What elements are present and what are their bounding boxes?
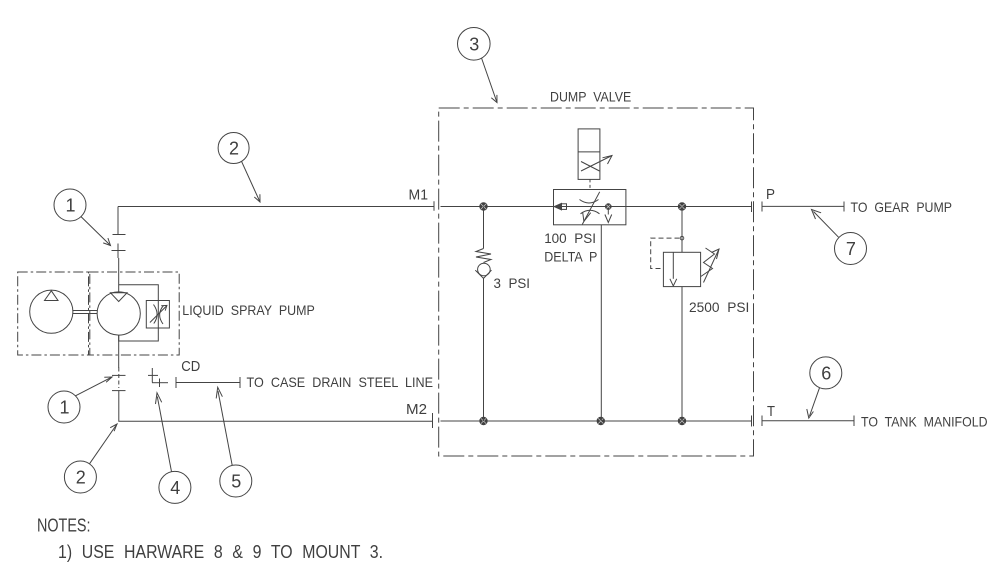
svg-text:2500 PSI: 2500 PSI — [689, 299, 749, 315]
junction M2-check valve — [480, 417, 487, 424]
valve V1 left port arrow — [554, 203, 566, 209]
wire pump outlet to fitting — [118, 258, 120, 292]
wire relief pilot (dashed) — [651, 238, 680, 268]
svg-text:1: 1 — [66, 196, 76, 216]
dump valve enclosure (phantom border) — [439, 108, 754, 456]
svg-text:NOTES:: NOTES: — [37, 516, 91, 536]
pump P1 circle — [97, 292, 140, 335]
wire relief feed — [681, 207, 683, 253]
balloon 5 — [216, 387, 252, 497]
wire M2 left run — [119, 391, 433, 422]
CD port fitting cross C — [152, 379, 168, 388]
wire check valve upper — [483, 207, 485, 249]
M2 exit tick — [751, 416, 753, 427]
svg-text:TO CASE DRAIN STEEL LINE: TO CASE DRAIN STEEL LINE — [247, 374, 434, 390]
wire P port line — [762, 202, 844, 212]
svg-text:1: 1 — [60, 398, 70, 418]
wire case drain steel line — [176, 377, 240, 388]
valve V1 body — [554, 190, 626, 225]
svg-text:4: 4 — [170, 478, 180, 498]
junction M2-relief — [678, 417, 685, 424]
wire through compensator — [157, 301, 159, 329]
valve V1 drain arrow — [605, 210, 612, 223]
svg-text:TO TANK MANIFOLD: TO TANK MANIFOLD — [861, 414, 988, 430]
svg-text:CD: CD — [181, 358, 200, 375]
svg-text:3 PSI: 3 PSI — [494, 275, 531, 291]
svg-text:DUMP VALVE: DUMP VALVE — [550, 88, 631, 104]
M1 end tick — [433, 201, 435, 210]
svg-text:LIQUID SPRAY PUMP: LIQUID SPRAY PUMP — [182, 302, 314, 318]
label 100 PSI DELTA P — [544, 230, 597, 264]
wire compensator branch bottom — [119, 328, 159, 341]
valve V1 metering orifice arcs — [580, 200, 600, 214]
svg-text:100 PSI: 100 PSI — [544, 230, 596, 246]
check valve CV1 seat — [475, 270, 491, 278]
balloon 4 — [156, 393, 191, 504]
solenoid S1 body — [578, 129, 600, 180]
wire relief to M2 — [681, 287, 683, 421]
case drain fitting cross A — [112, 368, 126, 389]
wire M1 inside dump valve — [441, 206, 752, 208]
relief valve RV1 spring — [701, 248, 715, 277]
check valve CV1 spring — [476, 249, 491, 263]
balloon 7 — [812, 210, 867, 265]
svg-text:3: 3 — [469, 34, 479, 54]
solenoid S1 cross and proportional arrow — [581, 156, 612, 172]
wire T port line — [762, 416, 854, 427]
svg-text:TO GEAR PUMP: TO GEAR PUMP — [851, 199, 953, 215]
relief valve RV1 adjust arrow — [704, 249, 720, 283]
relief valve RV1 flow arrow — [670, 252, 677, 286]
junction M1-check valve — [480, 203, 487, 210]
balloon 1 bottom — [48, 377, 112, 423]
svg-text:P: P — [766, 186, 775, 203]
electric motor circle — [30, 290, 73, 333]
wire compensator branch top — [119, 285, 159, 301]
compensator variable orifice — [150, 305, 167, 325]
balloon 1 top — [54, 189, 111, 246]
svg-text:5: 5 — [231, 472, 241, 492]
relief valve RV1 body — [663, 252, 700, 286]
enclosure box pump (dash-dot) — [89, 272, 180, 355]
M1 exit tick — [751, 202, 753, 213]
case drain flange tick — [112, 390, 126, 392]
check valve CV1 ball — [478, 263, 491, 276]
wire pump case drain — [118, 335, 120, 368]
junction M2-valve drain — [597, 417, 604, 424]
fitting flange on pump pressure port — [113, 234, 126, 236]
balloon 3 — [458, 28, 498, 103]
svg-text:2: 2 — [229, 139, 239, 159]
svg-text:7: 7 — [846, 239, 856, 259]
svg-text:M2: M2 — [406, 401, 427, 418]
balloon 2 bottom — [64, 424, 117, 493]
electric motor triangle — [45, 291, 59, 301]
svg-text:M1: M1 — [409, 187, 429, 204]
svg-text:1) USE HARWARE 8 & 9 TO: 1) USE HARWARE 8 & 9 TO MOUNT 3. — [58, 542, 383, 562]
fitting cross on pump pressure port — [112, 244, 126, 259]
M2 end tick — [432, 413, 434, 428]
wire solenoid pilot (dashed) — [589, 179, 591, 189]
svg-text:DELTA P: DELTA P — [544, 248, 597, 264]
valve V1 adjust arrow — [582, 192, 599, 225]
wire M2 inside dump valve — [441, 420, 752, 422]
CD port fitting cross B — [148, 368, 158, 383]
balloon 2 top — [218, 133, 260, 203]
pilot node circle — [680, 236, 684, 240]
pump triangle (outlet up) — [111, 293, 128, 302]
wire M1 left run — [118, 207, 434, 235]
wire check valve lower — [483, 278, 485, 421]
balloon 6 — [807, 357, 842, 418]
svg-text:2: 2 — [76, 468, 86, 488]
svg-text:T: T — [767, 403, 775, 420]
enclosure box motor (dash-dot) — [18, 272, 90, 355]
drive shaft (double line) — [73, 311, 97, 314]
svg-text:6: 6 — [821, 363, 831, 383]
wire valve drain to M2 — [600, 225, 602, 421]
junction M1-relief — [678, 203, 685, 210]
compensator CP1 box — [146, 301, 169, 329]
junction valve drain port — [606, 204, 612, 210]
